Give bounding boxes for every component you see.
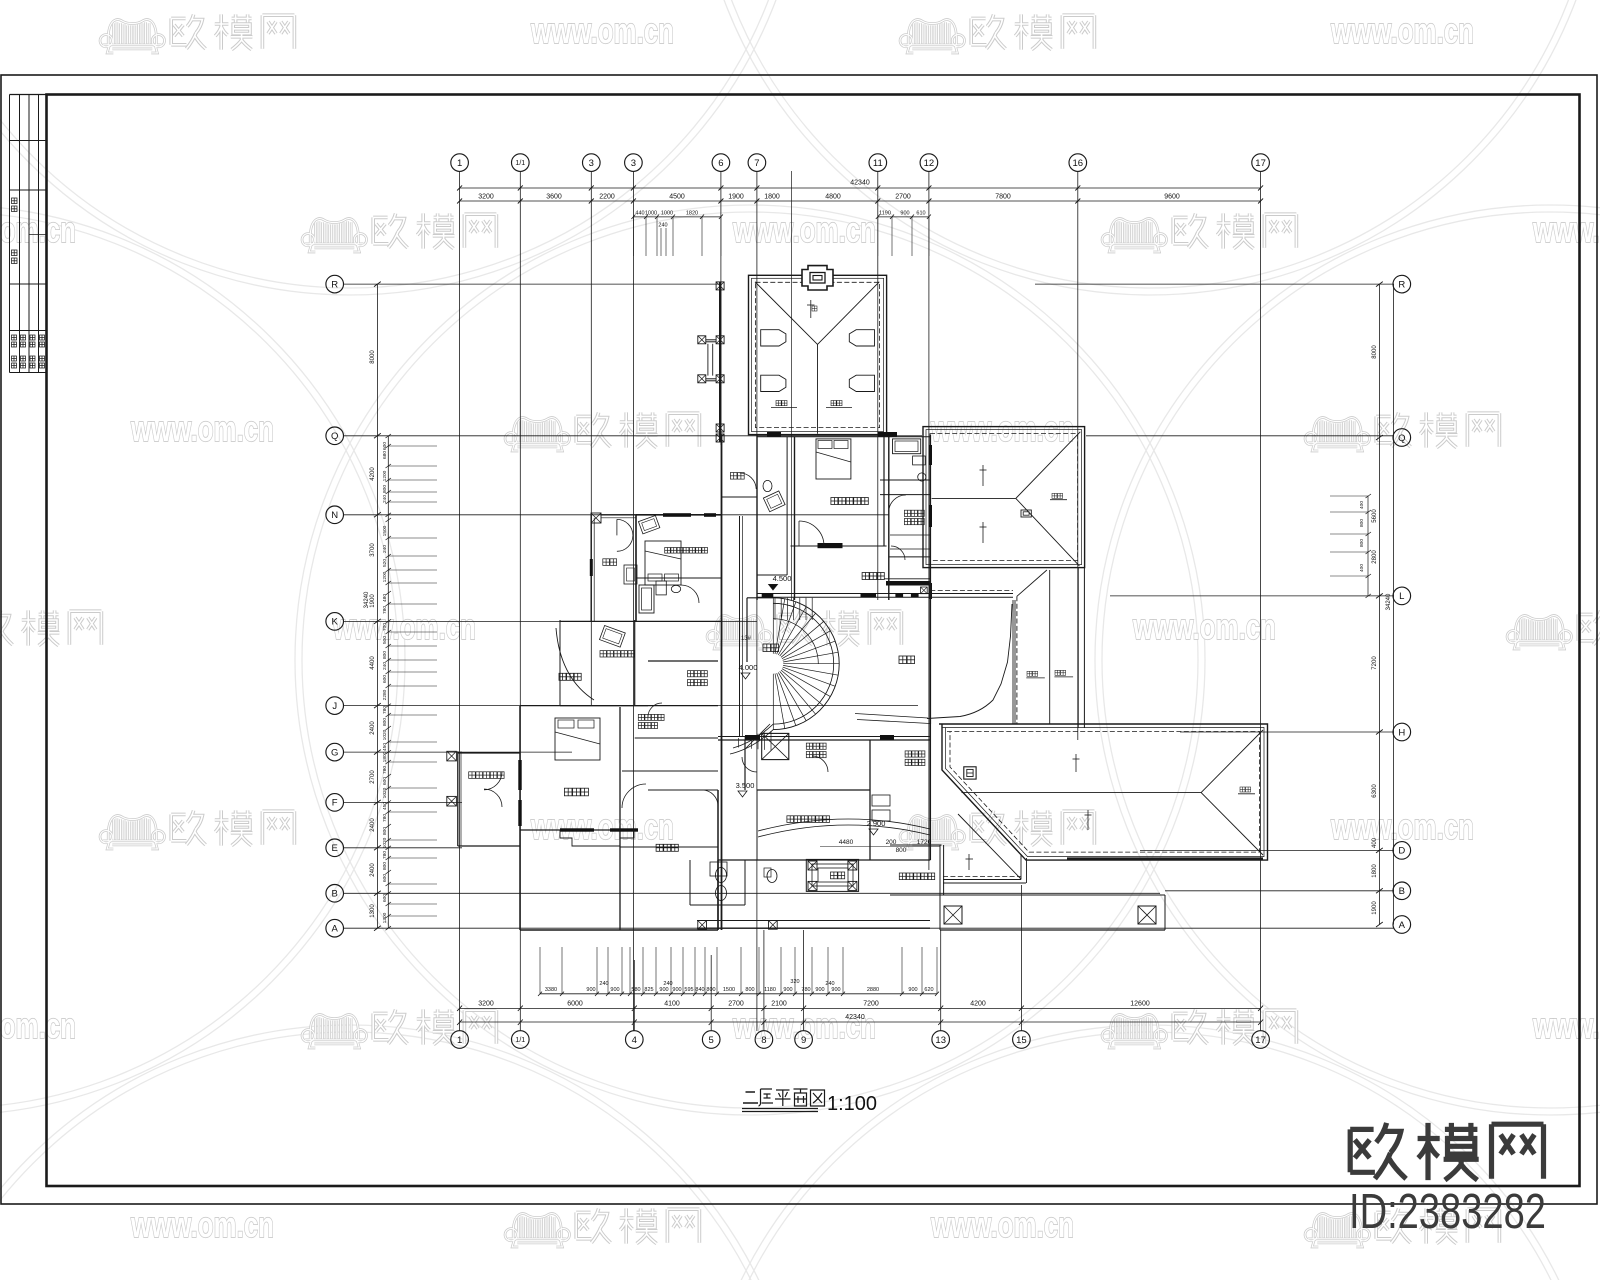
svg-text:www.om.cn: www.om.cn bbox=[1330, 10, 1474, 51]
svg-text:600: 600 bbox=[382, 442, 388, 450]
svg-text:1900: 1900 bbox=[370, 594, 376, 608]
svg-text:600: 600 bbox=[382, 777, 388, 785]
svg-text:1500: 1500 bbox=[723, 987, 735, 993]
svg-text:3700: 3700 bbox=[370, 543, 376, 557]
svg-text:B: B bbox=[1399, 886, 1405, 897]
svg-text:www.om.cn: www.om.cn bbox=[930, 408, 1074, 449]
svg-text:B: B bbox=[332, 889, 338, 900]
svg-text:1720: 1720 bbox=[917, 839, 932, 846]
svg-text:900: 900 bbox=[908, 987, 917, 993]
svg-text:900: 900 bbox=[815, 987, 824, 993]
svg-text:A: A bbox=[1399, 920, 1406, 931]
svg-text:1020: 1020 bbox=[382, 837, 388, 848]
svg-text:J: J bbox=[332, 701, 337, 712]
svg-text:240: 240 bbox=[382, 662, 388, 670]
svg-text:480: 480 bbox=[382, 594, 388, 602]
svg-text:800: 800 bbox=[896, 847, 907, 854]
svg-text:42340: 42340 bbox=[850, 180, 870, 187]
svg-text:2700: 2700 bbox=[370, 770, 376, 784]
svg-text:G: G bbox=[331, 747, 338, 758]
svg-text:1800: 1800 bbox=[382, 751, 388, 762]
svg-text:Q: Q bbox=[1398, 433, 1405, 444]
svg-text:825: 825 bbox=[644, 987, 653, 993]
svg-text:800: 800 bbox=[382, 651, 388, 659]
svg-text:4480: 4480 bbox=[839, 839, 854, 846]
svg-text:Q: Q bbox=[331, 431, 338, 442]
svg-text:200: 200 bbox=[886, 839, 897, 846]
svg-text:E: E bbox=[332, 843, 338, 854]
svg-text:240: 240 bbox=[599, 981, 608, 987]
svg-text:1900: 1900 bbox=[728, 194, 744, 201]
svg-text:34240: 34240 bbox=[1386, 593, 1392, 610]
svg-text:3600: 3600 bbox=[546, 194, 562, 201]
svg-text:400: 400 bbox=[1359, 564, 1365, 572]
svg-text:1180: 1180 bbox=[764, 987, 776, 993]
svg-text:240: 240 bbox=[658, 223, 667, 229]
svg-text:www.om.cn: www.om.cn bbox=[530, 806, 674, 847]
svg-text:400: 400 bbox=[1359, 501, 1365, 509]
svg-text:1200: 1200 bbox=[382, 571, 388, 582]
svg-text:9: 9 bbox=[801, 1035, 806, 1046]
svg-text:800: 800 bbox=[706, 987, 715, 993]
svg-text:900: 900 bbox=[831, 987, 840, 993]
svg-text:7: 7 bbox=[754, 158, 759, 169]
svg-text:4100: 4100 bbox=[664, 1001, 680, 1008]
svg-text:15: 15 bbox=[1016, 1035, 1027, 1046]
svg-text:1300: 1300 bbox=[370, 904, 376, 918]
svg-text:780: 780 bbox=[382, 706, 388, 714]
svg-text:240: 240 bbox=[382, 545, 388, 553]
svg-text:H: H bbox=[1398, 727, 1405, 738]
svg-text:2700: 2700 bbox=[895, 194, 911, 201]
svg-text:3.500: 3.500 bbox=[736, 781, 755, 790]
svg-text:D: D bbox=[1398, 846, 1405, 857]
svg-text:8000: 8000 bbox=[1372, 345, 1378, 359]
svg-text:4800: 4800 bbox=[825, 194, 841, 201]
svg-text:610: 610 bbox=[916, 211, 925, 217]
svg-text:780: 780 bbox=[382, 606, 388, 614]
svg-text:580: 580 bbox=[631, 987, 640, 993]
svg-text:2700: 2700 bbox=[728, 1001, 744, 1008]
svg-text:4200: 4200 bbox=[370, 467, 376, 481]
svg-text:780: 780 bbox=[801, 987, 810, 993]
svg-text:17: 17 bbox=[1255, 158, 1266, 169]
svg-text:900: 900 bbox=[672, 987, 681, 993]
svg-text:www.om.cn: www.om.cn bbox=[1532, 1005, 1600, 1046]
svg-text:2200: 2200 bbox=[599, 194, 615, 201]
svg-text:900: 900 bbox=[586, 987, 595, 993]
svg-text:K: K bbox=[332, 617, 339, 628]
svg-text:4.500: 4.500 bbox=[773, 574, 792, 583]
svg-text:5600: 5600 bbox=[1372, 509, 1378, 523]
svg-text:www.om.cn: www.om.cn bbox=[530, 10, 674, 51]
svg-text:800: 800 bbox=[745, 987, 754, 993]
svg-text:1: 1 bbox=[457, 158, 462, 169]
svg-text:5: 5 bbox=[709, 1035, 714, 1046]
svg-text:780: 780 bbox=[382, 851, 388, 859]
svg-text:13: 13 bbox=[935, 1035, 946, 1046]
svg-text:1:100: 1:100 bbox=[827, 1093, 877, 1115]
svg-text:600: 600 bbox=[382, 874, 388, 882]
svg-text:800: 800 bbox=[382, 485, 388, 493]
svg-text:3: 3 bbox=[589, 158, 594, 169]
svg-text:6000: 6000 bbox=[567, 1001, 583, 1008]
svg-text:4400: 4400 bbox=[370, 656, 376, 670]
svg-text:R: R bbox=[1398, 279, 1405, 290]
svg-text:2400: 2400 bbox=[370, 863, 376, 877]
svg-text:1020: 1020 bbox=[382, 729, 388, 740]
svg-text:1800: 1800 bbox=[764, 194, 780, 201]
svg-text:www.om.cn: www.om.cn bbox=[332, 606, 476, 647]
svg-text:1/1: 1/1 bbox=[515, 160, 525, 167]
svg-text:www.om.cn: www.om.cn bbox=[130, 408, 274, 449]
svg-text:1820: 1820 bbox=[686, 211, 698, 217]
svg-text:900: 900 bbox=[610, 987, 619, 993]
svg-text:www.om.cn: www.om.cn bbox=[1532, 209, 1600, 250]
svg-text:8: 8 bbox=[761, 1035, 766, 1046]
svg-text:www.om.cn: www.om.cn bbox=[1330, 806, 1474, 847]
svg-text:600: 600 bbox=[382, 675, 388, 683]
svg-text:800: 800 bbox=[382, 718, 388, 726]
svg-text:440: 440 bbox=[635, 211, 644, 217]
svg-text:680: 680 bbox=[382, 451, 388, 459]
svg-text:700: 700 bbox=[382, 623, 388, 631]
svg-text:8000: 8000 bbox=[370, 350, 376, 364]
svg-text:1900: 1900 bbox=[1372, 901, 1378, 915]
svg-text:800: 800 bbox=[1359, 539, 1365, 547]
svg-text:17: 17 bbox=[1255, 1035, 1266, 1046]
svg-text:1190: 1190 bbox=[879, 211, 891, 217]
svg-text:900: 900 bbox=[783, 987, 792, 993]
svg-text:www.om.cn: www.om.cn bbox=[0, 1005, 76, 1046]
svg-text:400: 400 bbox=[1372, 837, 1378, 848]
svg-text:2100: 2100 bbox=[771, 1001, 787, 1008]
svg-text:34240: 34240 bbox=[364, 591, 370, 608]
svg-text:2400: 2400 bbox=[370, 818, 376, 832]
svg-text:600: 600 bbox=[382, 894, 388, 902]
svg-text:13#: 13# bbox=[741, 636, 752, 642]
svg-text:1500: 1500 bbox=[382, 525, 388, 536]
svg-text:240: 240 bbox=[382, 495, 388, 503]
svg-text:9600: 9600 bbox=[1164, 194, 1180, 201]
svg-text:1: 1 bbox=[457, 1035, 462, 1046]
svg-text:780: 780 bbox=[382, 766, 388, 774]
svg-text:L: L bbox=[1399, 591, 1404, 602]
svg-text:6: 6 bbox=[718, 158, 723, 169]
svg-text:2280: 2280 bbox=[382, 689, 388, 700]
svg-text:2880: 2880 bbox=[867, 987, 879, 993]
svg-text:900: 900 bbox=[900, 211, 909, 217]
svg-text:3: 3 bbox=[631, 158, 636, 169]
svg-text:240: 240 bbox=[825, 981, 834, 987]
svg-text:1800: 1800 bbox=[1372, 864, 1378, 878]
svg-text:2.900: 2.900 bbox=[867, 819, 886, 828]
svg-text:1000: 1000 bbox=[661, 211, 673, 217]
svg-text:800: 800 bbox=[1359, 519, 1365, 527]
svg-text:3200: 3200 bbox=[478, 194, 494, 201]
svg-text:620: 620 bbox=[924, 987, 933, 993]
svg-text:2800: 2800 bbox=[1372, 550, 1378, 564]
svg-text:800: 800 bbox=[382, 862, 388, 870]
svg-text:7200: 7200 bbox=[1372, 656, 1378, 670]
svg-text:1200: 1200 bbox=[382, 470, 388, 481]
svg-text:F: F bbox=[332, 798, 338, 809]
svg-text:4200: 4200 bbox=[970, 1001, 986, 1008]
svg-text:7800: 7800 bbox=[995, 194, 1011, 201]
svg-text:N: N bbox=[331, 510, 338, 521]
svg-text:4500: 4500 bbox=[669, 194, 685, 201]
svg-text:4: 4 bbox=[632, 1035, 637, 1046]
svg-text:A: A bbox=[332, 924, 339, 935]
svg-text:2400: 2400 bbox=[370, 721, 376, 735]
svg-text:12: 12 bbox=[924, 158, 935, 169]
svg-text:www.om.cn: www.om.cn bbox=[130, 1204, 274, 1245]
svg-text:1300: 1300 bbox=[382, 912, 388, 923]
svg-text:R: R bbox=[331, 279, 338, 290]
svg-text:450: 450 bbox=[382, 743, 388, 751]
svg-text:www.om.cn: www.om.cn bbox=[1132, 606, 1276, 647]
svg-text:www.om.cn: www.om.cn bbox=[732, 209, 876, 250]
svg-text:500: 500 bbox=[382, 636, 388, 644]
svg-text:6300: 6300 bbox=[1372, 784, 1378, 798]
svg-text:780: 780 bbox=[382, 814, 388, 822]
svg-text:800: 800 bbox=[382, 827, 388, 835]
svg-text:4.000: 4.000 bbox=[739, 663, 758, 672]
svg-text:900: 900 bbox=[659, 987, 668, 993]
svg-text:3200: 3200 bbox=[478, 1001, 494, 1008]
svg-text:ID:2383282: ID:2383282 bbox=[1349, 1185, 1546, 1239]
svg-text:11: 11 bbox=[873, 158, 883, 169]
svg-text:1/1: 1/1 bbox=[515, 1037, 525, 1044]
svg-text:520: 520 bbox=[382, 559, 388, 567]
svg-text:12600: 12600 bbox=[1130, 1001, 1150, 1008]
svg-text:450: 450 bbox=[382, 802, 388, 810]
svg-text:www.om.cn: www.om.cn bbox=[930, 1204, 1074, 1245]
svg-text:1020: 1020 bbox=[382, 787, 388, 798]
svg-text:16: 16 bbox=[1073, 158, 1084, 169]
svg-text:7200: 7200 bbox=[863, 1001, 879, 1008]
svg-text:3380: 3380 bbox=[545, 987, 557, 993]
svg-text:42340: 42340 bbox=[845, 1014, 865, 1021]
svg-text:595: 595 bbox=[684, 987, 693, 993]
